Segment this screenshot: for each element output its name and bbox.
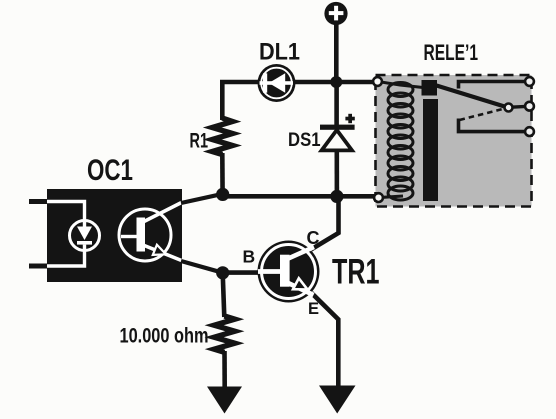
svg-text:C: C	[307, 228, 320, 248]
OC1 phototransistor base bar	[137, 218, 146, 252]
relay RELE'1 box	[376, 75, 532, 207]
relay terminal right bottom	[525, 127, 534, 136]
relay contact travel dashed line	[460, 109, 504, 120]
relay armature anchor square	[422, 80, 438, 96]
node B junction	[330, 190, 343, 203]
wire OC1 collector to node A	[181, 194, 223, 203]
relay coil bottom link	[380, 196, 403, 198]
svg-text:DL1: DL1	[259, 39, 300, 66]
relay terminal left bottom	[374, 193, 383, 202]
wire top rail y=82	[220, 80, 374, 85]
relay armature link to common	[511, 105, 526, 109]
OC1 left lead top	[29, 199, 48, 204]
relay terminal right middle	[525, 102, 534, 111]
svg-text:10.000 ohm: 10.000 ohm	[120, 324, 209, 348]
resistor R1	[212, 118, 232, 155]
OC1 phototransistor emitter arrow	[153, 245, 166, 255]
wire corner down to R1	[220, 80, 225, 120]
svg-text:TR1: TR1	[332, 252, 380, 292]
svg-text:RELE’1: RELE’1	[424, 40, 479, 65]
label + polarity of DS1	[345, 114, 354, 123]
OC1 left lead bottom	[29, 264, 48, 269]
wire 10k resistor to ground	[222, 351, 227, 388]
wire OC1 emitter to node C	[181, 261, 223, 273]
relay coil	[388, 83, 413, 201]
relay terminal right top	[525, 77, 534, 86]
svg-text:E: E	[308, 300, 319, 318]
relay armature	[437, 86, 508, 108]
relay core bar	[423, 99, 438, 201]
relay top fixed contact	[459, 82, 528, 89]
OC1 LED cathode trace	[47, 251, 85, 267]
ground right	[319, 386, 356, 414]
LED DL1	[258, 64, 296, 102]
power supply + terminal	[324, 2, 347, 25]
ground left	[207, 387, 242, 414]
wire TR1 base	[223, 270, 259, 275]
wire TR1 emitter	[311, 293, 338, 386]
node A junction	[216, 188, 229, 201]
relay terminal left top	[373, 77, 382, 86]
relay coil top link	[378, 82, 423, 88]
wire positive rail vertical	[334, 22, 339, 84]
optocoupler OC1 body	[47, 189, 182, 282]
wire TR1 collector	[311, 196, 339, 250]
OC1 phototransistor base line	[121, 235, 137, 238]
svg-text:B: B	[243, 247, 256, 267]
OC1 phototransistor collector trace	[143, 203, 182, 223]
node top junction	[330, 76, 342, 88]
OC1 phototransistor circle	[119, 209, 171, 261]
node C junction	[216, 266, 229, 279]
wire R1 to node A	[220, 153, 225, 196]
relay bottom fixed contact	[459, 119, 528, 132]
transistor TR1	[258, 241, 320, 303]
svg-text:OC1: OC1	[87, 154, 133, 187]
wire mid rail y=196	[223, 194, 376, 199]
svg-text:R1: R1	[190, 129, 209, 153]
OC1 phototransistor emitter trace	[143, 245, 182, 261]
OC1 LED symbol	[77, 221, 92, 251]
OC1 LED circle	[70, 221, 100, 251]
svg-text:DS1: DS1	[288, 129, 321, 151]
resistor 10.000 ohm	[214, 316, 235, 352]
relay pivot contact circle	[505, 104, 513, 112]
diode DS1	[320, 82, 355, 197]
wire node C to 10k resistor	[223, 273, 225, 317]
OC1 LED anode trace	[47, 202, 85, 222]
